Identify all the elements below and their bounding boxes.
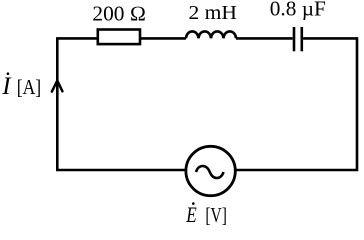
svg-text:I: I (1, 73, 12, 100)
svg-text:E: E (186, 202, 198, 227)
svg-text:[V]: [V] (205, 203, 227, 227)
value label 0.8 µF (270, 0, 326, 21)
value label 2 mH (189, 2, 238, 24)
inductor (186, 31, 236, 38)
source label Ė [V] (186, 202, 227, 227)
svg-text:0.8 µF: 0.8 µF (270, 0, 326, 21)
svg-text:2 mH: 2 mH (189, 2, 238, 24)
resistor (98, 30, 140, 45)
current arrow (52, 81, 63, 92)
wire between resistor and inductor (140, 37, 186, 40)
ac source (186, 146, 235, 195)
current label İ [A] (1, 72, 41, 100)
wire between inductor and capacitor (236, 37, 293, 40)
wire left side with top-left and bottom-left corners (57, 38, 186, 170)
svg-text:200 Ω: 200 Ω (92, 1, 146, 25)
value label 200 Ω (92, 1, 146, 25)
svg-text:[A]: [A] (17, 75, 42, 99)
wire right side with top-right and bottom-right corners (235, 38, 357, 170)
capacitor (294, 27, 302, 51)
